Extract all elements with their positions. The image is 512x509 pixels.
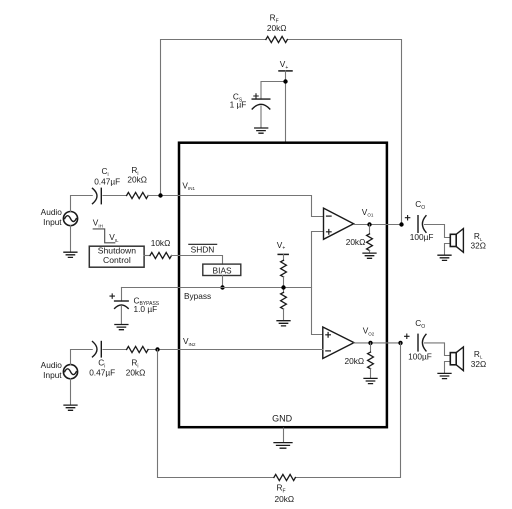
resistor RF bottom xyxy=(274,474,296,480)
svg-text:Audio: Audio xyxy=(41,207,63,217)
svg-text:SHDN: SHDN xyxy=(191,244,215,254)
svg-text:Control: Control xyxy=(103,255,131,265)
resistor Ri 1 xyxy=(127,192,149,198)
node output1 xyxy=(367,222,371,226)
svg-text:20kΩ: 20kΩ xyxy=(275,494,295,504)
speaker RL 2 xyxy=(450,353,456,365)
wire V+ down to box xyxy=(285,71,287,142)
svg-text:V+: V+ xyxy=(277,240,286,252)
svg-text:VO1: VO1 xyxy=(362,207,374,218)
wire VIN2 to opamp2 minus xyxy=(148,349,323,351)
svg-text:100µF: 100µF xyxy=(410,232,434,242)
ground 20k out1 xyxy=(363,253,376,258)
ground GND xyxy=(274,443,292,449)
wire CS branch xyxy=(261,82,286,100)
svg-text:20kΩ: 20kΩ xyxy=(345,356,365,366)
svg-text:Bypass: Bypass xyxy=(184,291,211,301)
wire source1 top to cap xyxy=(71,196,93,212)
wire noninverting bus xyxy=(312,232,324,335)
ground speaker1 xyxy=(438,255,451,260)
wire 10k to SHDN pin and to BIAS xyxy=(171,256,222,265)
svg-text:32Ω: 32Ω xyxy=(470,241,485,251)
resistor Ri 2 xyxy=(127,346,149,352)
ground 20k out2 xyxy=(364,378,377,383)
svg-text:20kΩ: 20kΩ xyxy=(127,174,147,184)
svg-text:CO: CO xyxy=(415,318,425,330)
capacitor Ci 1 xyxy=(93,188,98,203)
node output2 ext xyxy=(398,341,402,345)
V+ supply bar top xyxy=(279,70,292,72)
audio input source 1 xyxy=(63,212,77,226)
node VIN2 junction xyxy=(155,347,159,351)
svg-text:CO: CO xyxy=(415,199,425,211)
op-amp U1B xyxy=(323,327,354,359)
wire cap1 to resistor xyxy=(103,195,127,197)
svg-text:VIN2: VIN2 xyxy=(183,336,196,347)
svg-text:Audio: Audio xyxy=(41,360,63,370)
svg-text:GND: GND xyxy=(272,413,293,423)
svg-text:0.47µF: 0.47µF xyxy=(89,367,115,377)
svg-text:20kΩ: 20kΩ xyxy=(267,23,287,33)
svg-text:VIH: VIH xyxy=(93,218,103,229)
resistor bias upper xyxy=(281,260,287,277)
IC box xyxy=(179,143,387,428)
ground CS xyxy=(255,128,268,133)
svg-text:20kΩ: 20kΩ xyxy=(346,237,366,247)
ground speaker2 xyxy=(438,373,451,378)
svg-text:32Ω: 32Ω xyxy=(471,359,486,369)
speaker RL 1 xyxy=(450,234,456,246)
svg-text:1.0 µF: 1.0 µF xyxy=(134,304,158,314)
capacitor Ci 2 xyxy=(93,342,98,357)
wire bypass down to CBYPASS xyxy=(121,288,123,302)
ground bias divider xyxy=(277,321,290,326)
capacitor CBYPASS xyxy=(115,300,129,302)
svg-text:Input: Input xyxy=(43,370,62,380)
wire GND stub xyxy=(283,428,285,442)
wire CBYPASS to ground xyxy=(120,307,122,325)
svg-text:VO2: VO2 xyxy=(363,326,375,337)
svg-text:Input: Input xyxy=(43,217,62,227)
resistor 20k out2 xyxy=(370,343,372,352)
svg-text:RL: RL xyxy=(474,349,483,360)
capacitor CO 1 xyxy=(405,216,409,220)
wire top feedback loop left leg xyxy=(161,40,266,196)
node output2 xyxy=(368,341,372,345)
node bypass divider junction xyxy=(281,285,285,289)
capacitor CO 2 xyxy=(405,334,409,338)
wire output1 xyxy=(354,224,402,226)
svg-text:VIL: VIL xyxy=(109,232,119,243)
wire CS to ground xyxy=(260,106,262,128)
ground source2 xyxy=(64,405,77,410)
node V+ junction xyxy=(283,79,287,83)
wire source1 to ground xyxy=(70,226,72,253)
wire bottom feedback loop xyxy=(158,350,274,478)
ground CBYPASS xyxy=(115,325,128,330)
svg-text:100µF: 100µF xyxy=(408,352,432,362)
BIAS box xyxy=(203,264,241,275)
svg-text:0.47µF: 0.47µF xyxy=(94,176,120,186)
ground source1 xyxy=(64,252,77,257)
resistor 20k out1 xyxy=(369,225,371,234)
node output1 ext xyxy=(399,222,403,226)
audio input source 2 xyxy=(63,365,77,379)
wire bypass line xyxy=(122,287,312,289)
svg-text:20kΩ: 20kΩ xyxy=(126,367,146,377)
wire cap2 to resistor2 xyxy=(103,349,127,351)
resistor RF top xyxy=(266,36,288,42)
svg-text:RF: RF xyxy=(277,483,286,495)
wire top feedback loop right leg xyxy=(287,40,401,225)
wire BIAS to bypass node xyxy=(222,276,224,288)
wire shutdown box to resistor xyxy=(144,255,150,257)
svg-text:10kΩ: 10kΩ xyxy=(151,238,171,248)
node BIAS junction xyxy=(220,285,224,289)
svg-text:V+: V+ xyxy=(280,59,289,71)
wire source2 to cap2 xyxy=(71,350,93,365)
svg-text:VIN1: VIN1 xyxy=(182,180,195,191)
Shutdown Control box xyxy=(89,246,144,267)
op-amp U1A xyxy=(324,208,354,239)
resistor 10k xyxy=(150,252,172,258)
svg-text:BIAS: BIAS xyxy=(213,265,232,275)
wire output2 xyxy=(354,342,401,344)
wire Ri to box pin VIN1 and inside to opamp minus xyxy=(148,196,324,217)
wire CO1 to speaker xyxy=(425,225,451,238)
svg-text:1 µF: 1 µF xyxy=(230,100,247,110)
capacitor CS xyxy=(252,98,270,100)
resistor bias lower xyxy=(281,292,287,309)
wire CO2 to speaker2 xyxy=(425,343,451,356)
wire source2 to ground xyxy=(70,379,72,405)
node VIN1 junction xyxy=(158,193,162,197)
